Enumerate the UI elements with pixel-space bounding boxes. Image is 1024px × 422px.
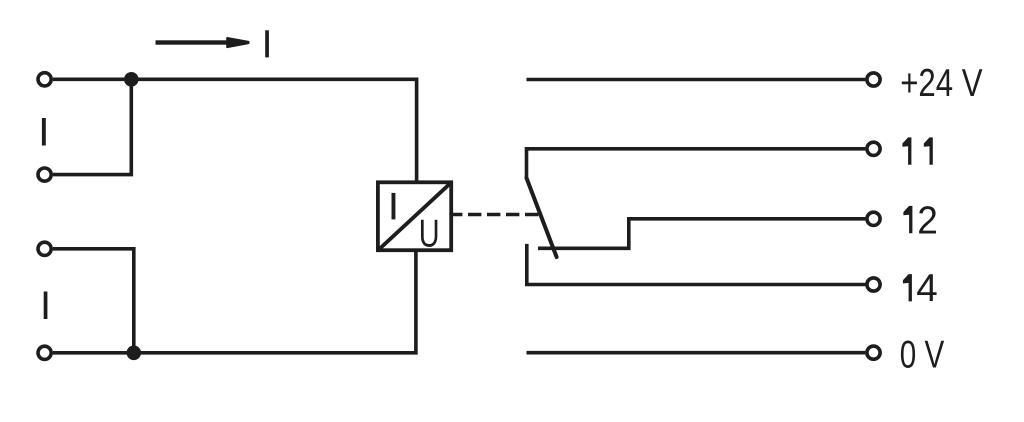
svg-text:0 V: 0 V [900,334,944,377]
svg-text:4: 4 [916,267,937,310]
terminal 14 [867,278,880,291]
terminal upper-left plus [38,73,51,86]
terminal 12 [867,212,880,225]
dashed control link from converter to switch [452,213,539,217]
current direction arrow [156,38,249,47]
switch lever K1 (changeover contact) [527,178,557,257]
label 11 [902,137,911,164]
terminal lower-left plus [38,242,51,255]
terminal 11 [867,142,880,155]
terminal +24V [867,73,880,86]
label I at lower input pair [44,292,48,320]
converter U1 box [378,182,451,250]
svg-text:2: 2 [917,200,938,243]
node junction J1 (current input branch) [124,72,139,87]
label 14 [903,274,912,301]
svg-text:U: U [419,212,440,255]
wire junction J1 down to lower terminal of first pair [53,79,131,174]
wire contact 14 (normally open) [527,244,866,285]
wire +24V rail [527,78,866,82]
wire from lower-left terminal to I/U converter input (bottom) [53,249,416,353]
svg-text:+24 V: +24 V [900,62,983,105]
label I inside converter (input quantity) [392,193,396,220]
wire from upper-left terminal to I/U converter input (top) [53,79,417,185]
terminal upper-left minus [38,168,51,181]
label 12 [903,206,912,233]
node junction J2 (current input branch) [127,346,142,361]
terminal lower-left minus [38,346,51,359]
wire 0V rail [527,351,866,355]
label I at arrow (current symbol) [265,30,269,57]
wire from lower pair top terminal to junction J2 [53,249,134,353]
terminal 0V [867,346,880,359]
wire contact 11 common [527,149,866,178]
wire contact 12 (normally closed) [538,219,865,249]
label I at upper input pair [42,118,46,146]
converter U1 diagonal divider [379,183,451,250]
